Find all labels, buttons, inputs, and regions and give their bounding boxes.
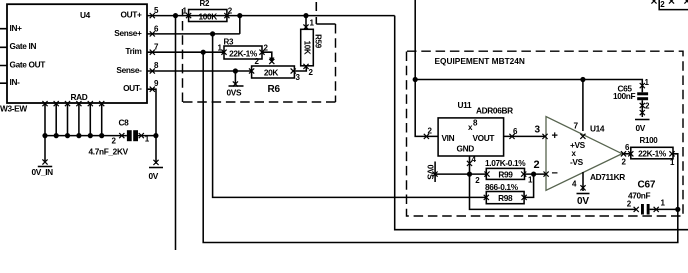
svg-text:4: 4 <box>472 155 477 164</box>
svg-text:AD711KR: AD711KR <box>590 172 625 182</box>
svg-text:Trim: Trim <box>125 46 141 56</box>
svg-text:470nF: 470nF <box>628 191 651 201</box>
svg-text:2: 2 <box>475 176 480 185</box>
svg-text:1: 1 <box>528 176 533 185</box>
svg-text:22K-1%: 22K-1% <box>638 149 667 159</box>
svg-text:1: 1 <box>670 158 675 167</box>
svg-text:866-0.1%: 866-0.1% <box>485 182 519 192</box>
svg-text:C8: C8 <box>119 118 130 128</box>
svg-text:ADR06BR: ADR06BR <box>476 106 513 116</box>
svg-text:R100: R100 <box>640 136 659 145</box>
svg-text:1: 1 <box>645 78 650 87</box>
svg-text:VIN: VIN <box>442 133 455 143</box>
svg-text:W3-EW: W3-EW <box>0 104 27 114</box>
svg-text:VOUT: VOUT <box>473 133 495 143</box>
svg-text:7: 7 <box>574 121 579 131</box>
svg-text:RAD: RAD <box>71 92 88 102</box>
svg-text:6: 6 <box>625 143 630 152</box>
svg-text:3: 3 <box>535 125 541 136</box>
svg-text:2: 2 <box>660 0 665 9</box>
svg-text:100nF: 100nF <box>613 91 636 101</box>
svg-text:0VS: 0VS <box>227 88 242 98</box>
svg-text:Sense+: Sense+ <box>114 28 142 38</box>
svg-text:U4: U4 <box>80 10 91 20</box>
svg-text:0V_IN: 0V_IN <box>32 167 54 177</box>
svg-text:3: 3 <box>296 73 301 82</box>
svg-text:Gate IN: Gate IN <box>10 41 37 51</box>
svg-text:20K: 20K <box>264 68 279 78</box>
svg-text:0V: 0V <box>577 196 589 207</box>
svg-text:2: 2 <box>645 102 650 111</box>
svg-text:1: 1 <box>218 44 223 53</box>
svg-text:C67: C67 <box>638 180 656 191</box>
svg-text:100K: 100K <box>198 12 217 22</box>
svg-text:R98: R98 <box>498 193 513 203</box>
svg-text:R2: R2 <box>200 0 210 8</box>
svg-text:2: 2 <box>309 68 314 77</box>
svg-text:2: 2 <box>534 159 540 171</box>
svg-text:R3: R3 <box>224 38 234 47</box>
svg-text:+: + <box>552 130 558 142</box>
svg-text:R99: R99 <box>498 169 513 179</box>
svg-text:0V: 0V <box>149 171 159 181</box>
svg-text:IN+: IN+ <box>10 23 23 33</box>
svg-text:2: 2 <box>622 158 627 167</box>
svg-text:4.7nF_2KV: 4.7nF_2KV <box>89 147 129 157</box>
svg-text:Gate OUT: Gate OUT <box>10 59 46 69</box>
svg-text:4: 4 <box>572 180 577 189</box>
svg-text:0VS: 0VS <box>426 165 436 180</box>
svg-text:R6: R6 <box>268 84 281 95</box>
svg-text:EQUIPEMENT MBT24N: EQUIPEMENT MBT24N <box>435 56 525 66</box>
svg-text:U14: U14 <box>590 124 605 134</box>
svg-text:2: 2 <box>255 57 260 66</box>
svg-text:0V: 0V <box>636 123 646 133</box>
svg-text:−: − <box>552 168 558 180</box>
svg-text:GND: GND <box>457 144 475 154</box>
svg-text:R59: R59 <box>314 34 323 49</box>
svg-text:1: 1 <box>310 19 315 28</box>
svg-text:-VS: -VS <box>570 157 584 167</box>
svg-text:OUT-: OUT- <box>123 83 142 93</box>
svg-text:8: 8 <box>473 119 478 128</box>
svg-text:1.07K-0.1%: 1.07K-0.1% <box>485 158 526 168</box>
svg-text:U11: U11 <box>458 100 472 110</box>
svg-text:2: 2 <box>264 44 269 53</box>
svg-text:10K: 10K <box>302 41 311 55</box>
svg-text:OUT+: OUT+ <box>121 10 142 20</box>
svg-text:IN-: IN- <box>10 77 21 87</box>
svg-text:Sense-: Sense- <box>116 65 142 75</box>
